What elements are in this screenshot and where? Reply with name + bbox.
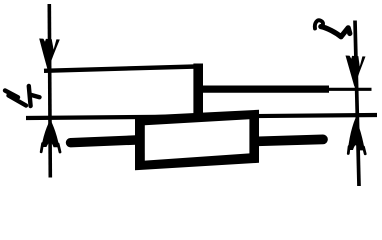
arrowhead down right (346, 56, 366, 88)
arrowhead up left (41, 120, 59, 148)
label 4 (5, 86, 40, 106)
dimension line right (355, 21, 359, 187)
wire right edge of upper component (thick bent lead) (193, 64, 203, 115)
wire upper right lead (thick) (196, 85, 329, 92)
wire right lead of resistor (258, 139, 323, 141)
dimension line left (49, 4, 50, 178)
wire top edge of upper component outline (44, 67, 196, 71)
arrowhead down left (39, 39, 60, 71)
wire baseline (board surface line) (26, 115, 377, 118)
label 2 (315, 20, 323, 28)
wire thin extension line of upper lead (329, 88, 372, 91)
resistor body R1 (135, 110, 259, 171)
arrowhead up right (348, 118, 365, 151)
wire left lead of resistor (71, 140, 137, 143)
